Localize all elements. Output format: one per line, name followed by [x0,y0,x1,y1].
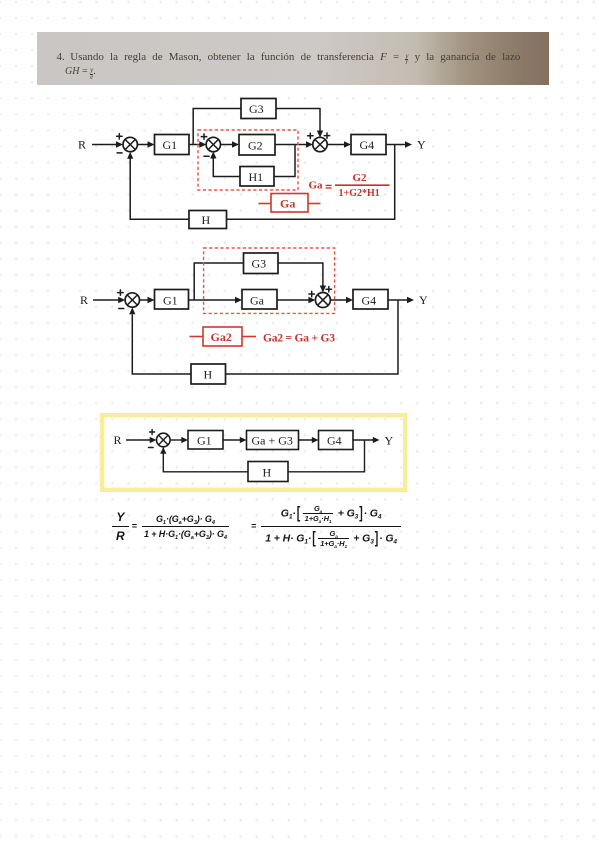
svg-text:Ga2: Ga2 [211,330,232,344]
svg-text:Ga: Ga [280,197,295,211]
svg-text:R: R [114,433,122,447]
svg-text:R: R [80,293,88,307]
svg-text:Ga + G3: Ga + G3 [252,434,293,448]
svg-text:G1: G1 [163,138,178,152]
svg-text:H1: H1 [249,170,264,184]
svg-text:G3: G3 [249,102,264,116]
svg-text:Ga: Ga [309,180,324,192]
svg-text:G2: G2 [353,172,368,184]
svg-text:G4: G4 [327,434,342,448]
svg-text:Y: Y [419,293,428,307]
svg-text:G1: G1 [197,434,212,448]
svg-text:G1: G1 [163,294,178,308]
svg-text:Y: Y [417,138,426,152]
svg-text:1+G2*H1: 1+G2*H1 [339,188,380,199]
svg-text:R: R [78,138,86,152]
svg-text:Y: Y [385,434,394,448]
svg-text:H: H [263,466,272,480]
svg-text:H: H [202,213,211,227]
svg-text:G4: G4 [360,138,375,152]
svg-text:Ga: Ga [250,294,265,308]
svg-text:G2: G2 [248,139,263,153]
svg-text:G3: G3 [252,257,267,271]
svg-text:H: H [204,368,213,382]
svg-text:G4: G4 [362,294,377,308]
svg-text:Ga2 = Ga + G3: Ga2 = Ga + G3 [263,333,335,345]
